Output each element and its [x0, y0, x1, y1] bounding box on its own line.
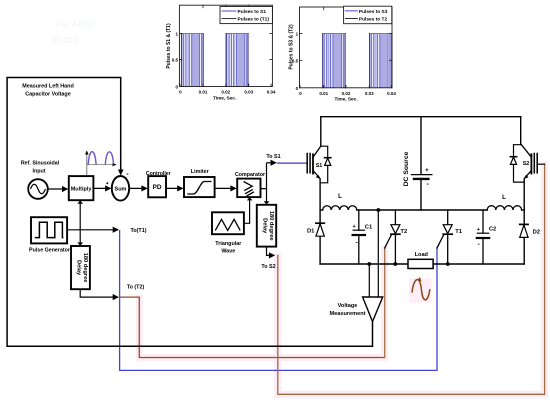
- svg-text:To S2: To S2: [261, 264, 275, 270]
- block Limiter saturation: [184, 177, 215, 197]
- scope2 legend entry S3: [345, 10, 357, 12]
- wire bottom rail right: [433, 263, 524, 265]
- wire VM probe plus: [377, 210, 379, 297]
- svg-text:-: -: [355, 239, 357, 246]
- svg-text:C2: C2: [489, 227, 496, 233]
- wire junction down to delay left: [79, 230, 81, 244]
- svg-text:T1: T1: [455, 229, 463, 235]
- svg-text:T2: T2: [400, 229, 407, 235]
- svg-text:Delay: Delay: [76, 260, 82, 276]
- node T1 cathode rail: [446, 262, 450, 266]
- source V1 sine circle: [28, 179, 48, 199]
- diode DS2 antiparallel: [510, 145, 524, 182]
- wire brown To S2 loop: [278, 164, 545, 394]
- svg-text:0.01: 0.01: [319, 91, 328, 96]
- scope1 legend entry S1: [222, 10, 236, 12]
- diode D1: [316, 223, 324, 236]
- wire triangular wave to comparator: [244, 199, 250, 223]
- wire inductor left stub: [320, 209, 323, 211]
- svg-text:S1: S1: [316, 163, 323, 169]
- svg-text:To (T2): To (T2): [127, 284, 145, 290]
- wire blue gate S1: [277, 162, 306, 164]
- svg-text:Comparator: Comparator: [235, 172, 265, 178]
- node middle rail VM tap: [376, 208, 380, 212]
- svg-text:+: +: [425, 167, 429, 174]
- CONTROL: [7, 20, 372, 346]
- scope1 pulse group B fill: [226, 34, 249, 87]
- svg-text:Delay: Delay: [262, 218, 268, 234]
- wire source to multiply: [48, 188, 68, 190]
- svg-text:0.01: 0.01: [199, 90, 208, 95]
- svg-text:Voltage: Voltage: [338, 303, 358, 309]
- wire pulse generator junction: [67, 229, 118, 231]
- svg-text:Measured Left Hand: Measured Left Hand: [22, 83, 74, 89]
- svg-text:Ref. Sinusoidal: Ref. Sinusoidal: [21, 161, 60, 167]
- scope2 legend box: [344, 6, 392, 24]
- node T2 cathode rail: [394, 262, 398, 266]
- scope1 legend entry T1: [222, 18, 236, 20]
- capacitor C2: [477, 210, 489, 264]
- svg-text:180 degree: 180 degree: [82, 253, 88, 283]
- block delay left 180 degree: [71, 246, 90, 289]
- IGBT S2: [521, 145, 537, 180]
- scope2 axes box: [300, 7, 393, 88]
- inductor L right: [487, 194, 521, 210]
- wire inductor right stub: [522, 209, 525, 211]
- svg-text:D2: D2: [533, 229, 540, 235]
- scope1 legend box: [220, 7, 272, 24]
- svg-text:Limiter: Limiter: [191, 169, 210, 175]
- scope1 x tick labels: [179, 90, 276, 95]
- wire brown To T2 loop: [120, 297, 384, 357]
- svg-text:D1: D1: [307, 228, 315, 234]
- block PD: [148, 176, 166, 197]
- inductor L left: [323, 193, 357, 210]
- svg-text:Triangular: Triangular: [215, 241, 242, 247]
- svg-text:L: L: [338, 193, 342, 200]
- svg-text:0.04: 0.04: [267, 90, 276, 95]
- wire top rail: [321, 116, 521, 118]
- SCOPE2: [289, 6, 397, 101]
- wire halo pink To T2 loop: [139, 249, 384, 358]
- scope1 y tick labels: [172, 32, 179, 90]
- scope2 pulse group A fill: [322, 34, 345, 88]
- scope1 axis ticks: [179, 5, 272, 86]
- wire S2 collector riser: [520, 117, 522, 145]
- svg-text:L: L: [502, 194, 506, 201]
- svg-text:S2: S2: [523, 161, 530, 167]
- wire S1 collector riser: [320, 117, 322, 147]
- svg-text:Pulses to S3: Pulses to S3: [359, 9, 388, 15]
- resistor Load: [408, 259, 433, 268]
- svg-text:C1: C1: [365, 224, 373, 230]
- capacitor C1: [353, 210, 365, 264]
- wire comparator output junction: [261, 163, 267, 203]
- svg-text:Pulses to T2: Pulses to T2: [359, 17, 388, 23]
- wire blue To T1 loop: [120, 231, 437, 371]
- wire to S1 tag: [267, 162, 276, 164]
- wire PD to limiter: [166, 187, 183, 189]
- svg-text:Sum: Sum: [115, 187, 127, 193]
- svg-text:180 degree: 180 degree: [268, 211, 274, 241]
- block Sum: [112, 176, 129, 201]
- wire S2 gate stub: [538, 163, 545, 165]
- svg-text:0.02: 0.02: [221, 90, 230, 95]
- node bottom rail VM tap: [367, 262, 371, 266]
- svg-text:Capacitor Voltage: Capacitor Voltage: [25, 91, 70, 97]
- wire S2 emitter drop: [523, 179, 525, 264]
- IGBT S1: [307, 146, 321, 179]
- svg-text:3D 4DC: 3D 4DC: [50, 36, 79, 45]
- wire DC source branch: [420, 117, 422, 210]
- wire S1 emitter drop: [319, 179, 321, 264]
- svg-text:0.04: 0.04: [387, 91, 396, 96]
- annotation sine load red: [409, 279, 432, 303]
- thyristor T2: [385, 210, 400, 264]
- block Comparator: [237, 179, 260, 198]
- svg-text:0.03: 0.03: [365, 91, 374, 96]
- annotation rectified sine icon: [85, 150, 117, 175]
- block Multiply: [69, 176, 94, 200]
- SCOPE1: [166, 5, 276, 100]
- wire multiply to sum: [93, 187, 110, 189]
- wire delay right to To S2 tag: [267, 247, 275, 256]
- wire bottom rail left: [320, 263, 408, 265]
- scope2 legend entry T2: [345, 18, 357, 20]
- svg-text:0.03: 0.03: [244, 90, 253, 95]
- scope1 pulse group A fill: [181, 34, 203, 87]
- svg-text:Pulses to S1: Pulses to S1: [238, 9, 267, 15]
- scope2 y tick labels: [292, 32, 299, 91]
- block Pulse Generator: [31, 217, 67, 243]
- svg-text:Pulses to S3 & (T2): Pulses to S3 & (T2): [289, 24, 295, 70]
- wire VM probe minus: [368, 264, 370, 297]
- scope2 pulse group B fill: [369, 34, 392, 88]
- scope2 x tick labels: [299, 91, 396, 96]
- svg-text:Load: Load: [415, 252, 429, 258]
- svg-text:DC Source: DC Source: [403, 151, 410, 186]
- wire delay left to To T2 tag: [80, 289, 118, 297]
- svg-text:Time, Sec.: Time, Sec.: [334, 97, 357, 102]
- svg-text:Input: Input: [33, 168, 46, 174]
- svg-text:Wave: Wave: [221, 248, 235, 254]
- wire limiter to comparator: [215, 187, 236, 189]
- wire halo pink To S2 loop: [278, 165, 545, 394]
- thyristor T1: [437, 210, 452, 264]
- scope1 axes box: [179, 5, 272, 86]
- svg-text:0.5: 0.5: [172, 58, 179, 63]
- svg-text:Pulses to S1 & (T1): Pulses to S1 & (T1): [166, 23, 172, 69]
- svg-text:Pulse Generator: Pulse Generator: [29, 247, 70, 253]
- scope2 axis ticks: [300, 7, 393, 88]
- svg-text:Measurement: Measurement: [329, 311, 365, 317]
- battery DC Source: [412, 175, 432, 179]
- wire junction up to multiply: [79, 202, 81, 230]
- svg-text:Time, Sec.: Time, Sec.: [213, 95, 236, 100]
- diode DS1 antiparallel: [320, 146, 331, 183]
- block delay right 180 degree: [257, 205, 276, 247]
- svg-text:PD: PD: [153, 184, 162, 191]
- POWER: [307, 117, 540, 322]
- wire sum to PD: [129, 187, 147, 189]
- wire brown T2 gate riser: [384, 248, 386, 357]
- meter Voltage Measurement: [363, 297, 383, 322]
- svg-text:Multiply: Multiply: [71, 187, 93, 193]
- block Triangular Wave: [212, 212, 244, 234]
- svg-text:-: -: [478, 241, 480, 248]
- svg-text:Fig: 4.8(1): Fig: 4.8(1): [55, 20, 93, 29]
- svg-text:Pulses to (T1): Pulses to (T1): [238, 17, 270, 23]
- wire feedback loop Measured Capacitor Voltage: [7, 78, 372, 347]
- svg-text:To S1: To S1: [266, 154, 280, 160]
- wire middle rail: [357, 209, 487, 211]
- diode D2: [520, 224, 528, 237]
- svg-text:0.02: 0.02: [342, 91, 351, 96]
- svg-text:To(T1): To(T1): [130, 228, 146, 234]
